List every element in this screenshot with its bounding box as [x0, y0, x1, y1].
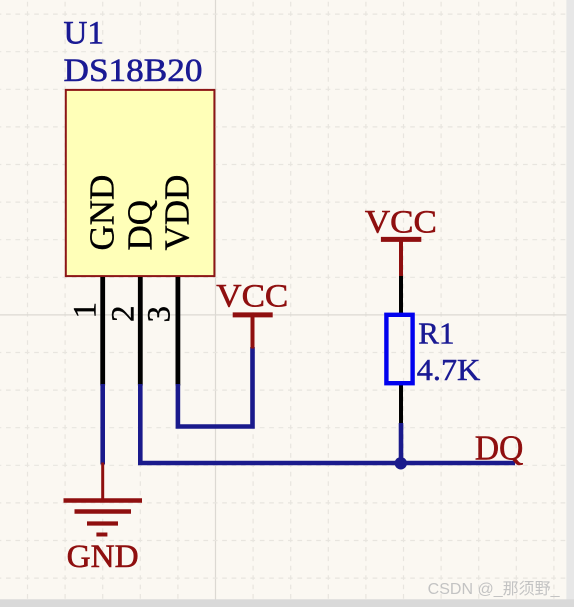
svg-text:GND: GND [67, 539, 139, 575]
svg-text:VDD: VDD [158, 175, 197, 251]
svg-text:3: 3 [142, 306, 178, 323]
svg-text:VCC: VCC [216, 278, 288, 314]
svg-text:DS18B20: DS18B20 [64, 53, 203, 89]
svg-text:DQ: DQ [121, 200, 160, 251]
svg-text:1: 1 [68, 302, 104, 319]
svg-text:4.7K: 4.7K [417, 352, 481, 387]
svg-text:2: 2 [106, 306, 142, 323]
svg-text:DQ: DQ [475, 429, 524, 468]
svg-text:GND: GND [83, 175, 122, 251]
svg-text:U1: U1 [64, 16, 104, 52]
svg-text:R1: R1 [418, 315, 454, 350]
svg-text:CSDN @_那须野_: CSDN @_那须野_ [428, 580, 561, 598]
svg-text:VCC: VCC [365, 204, 437, 240]
